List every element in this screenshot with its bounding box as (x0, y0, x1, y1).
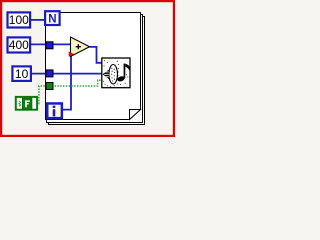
wire add output to beep top input (90, 47, 102, 63)
boolean F square (22, 98, 32, 110)
musical note head (117, 75, 126, 82)
boolean toggle zigzag (19, 101, 21, 106)
speaker grille dots (111, 68, 115, 82)
red image border frame (1, 1, 174, 136)
diagram background (0, 0, 175, 137)
musical note stem (124, 64, 126, 79)
i iteration terminal (47, 103, 62, 118)
speaker bell ellipse (109, 65, 118, 84)
wire 10 to beep middle input (32, 73, 102, 75)
numeric constant 100 (8, 12, 31, 27)
svg-text:10: 10 (15, 67, 29, 81)
i glyph dot (53, 106, 56, 108)
for-loop page stack (back page 3) (49, 17, 145, 125)
for-loop page 1 (front, dog-eared) (46, 13, 141, 120)
wire 400 to add upper input (31, 43, 71, 45)
tunnel boolean (green) (46, 83, 53, 90)
numeric constant 10 (12, 66, 31, 81)
speaker cone (103, 70, 109, 79)
add function triangle (71, 37, 90, 57)
boolean constant F (16, 97, 37, 110)
N count terminal (45, 11, 60, 25)
svg-text:N: N (48, 14, 56, 26)
plus sign (76, 44, 81, 49)
tunnel 10 (blue) (46, 70, 53, 77)
musical note flag (125, 64, 130, 73)
for-loop page stack (middle page 2) (47, 15, 143, 123)
svg-text:100: 100 (9, 13, 29, 27)
beep VI icon frame (102, 58, 130, 88)
coercion dot (red) (69, 52, 74, 57)
tunnel 400 (blue) (46, 42, 53, 49)
page fold flap (130, 110, 141, 120)
wire i to add lower input (63, 54, 71, 110)
numeric constant 400 (8, 37, 31, 52)
svg-text:400: 400 (9, 38, 29, 52)
boolean dotted wire F to beep (39, 80, 102, 103)
i glyph stem (53, 109, 56, 116)
dither dots in icon (103, 60, 128, 87)
wire 100 to N (31, 19, 45, 21)
